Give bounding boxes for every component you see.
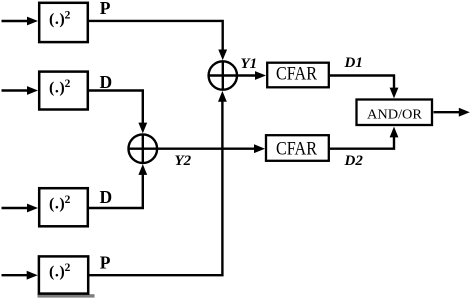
svg-text:D: D: [100, 187, 113, 207]
svg-text:2: 2: [65, 194, 71, 206]
svg-text:P: P: [100, 0, 111, 18]
svg-text:(.): (.): [49, 80, 65, 97]
svg-text:2: 2: [65, 78, 71, 90]
svg-text:D2: D2: [344, 153, 364, 169]
svg-text:P: P: [100, 253, 111, 273]
svg-text:CFAR: CFAR: [276, 140, 318, 160]
svg-text:2: 2: [65, 262, 71, 274]
svg-text:Y1: Y1: [241, 56, 258, 72]
svg-text:(.): (.): [49, 11, 65, 28]
svg-text:D: D: [100, 72, 113, 92]
svg-text:D1: D1: [344, 55, 363, 71]
svg-text:CFAR: CFAR: [276, 65, 318, 85]
svg-text:(.): (.): [49, 264, 65, 281]
svg-text:AND/OR: AND/OR: [367, 106, 423, 121]
svg-text:Y2: Y2: [175, 153, 192, 169]
svg-text:2: 2: [65, 9, 71, 21]
svg-text:(.): (.): [49, 195, 65, 212]
